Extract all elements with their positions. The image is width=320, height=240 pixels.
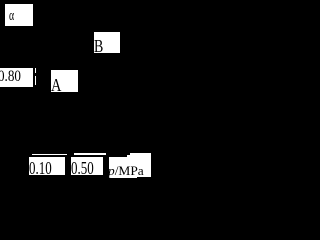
y-axis tick upper segment [35,68,36,74]
x-axis arrow shoulder of P/MPa label [130,153,151,158]
label box 0.80 [0,68,33,87]
label box A [51,70,78,92]
y-axis tick lower segment [35,76,36,86]
label box 0.10 [29,157,65,175]
text 0.80 [0,69,21,85]
label box 0.50 [71,157,103,175]
cap strip above 0.10 [32,154,68,156]
text p/MPa [108,164,144,177]
black border sliver bottom of P/MPa [137,177,151,178]
text 0.10 [29,159,52,177]
label box B [94,32,120,53]
x-axis arrow step [127,155,130,158]
text B [94,37,103,55]
text A [51,76,61,94]
label box alpha [5,4,33,26]
text alpha [9,9,14,24]
label box P/MPa [109,157,152,178]
cap strip above 0.50 [74,153,106,155]
text 0.50 [71,159,94,177]
